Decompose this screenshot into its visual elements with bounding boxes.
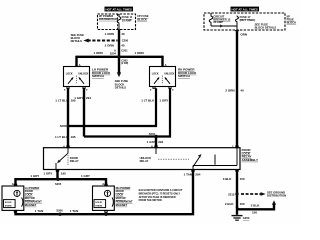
svg-text:1 GRY: 1 GRY	[43, 172, 52, 176]
svg-text:S205: S205	[55, 182, 62, 186]
wire tan motor bus to relay	[16, 170, 201, 215]
svg-text:HOT AT ALL TIMES: HOT AT ALL TIMES	[232, 8, 258, 12]
node S213	[228, 192, 239, 196]
svg-text:2 ORN: 2 ORN	[225, 88, 234, 92]
arrow down: see fuse block details (center)	[115, 57, 128, 90]
svg-text:S213: S213	[228, 193, 235, 197]
dashed arrow: see fuse block details (left)	[71, 33, 118, 43]
svg-text:1 LT BLU: 1 LT BLU	[55, 135, 68, 139]
svg-text:1 TAN: 1 TAN	[35, 209, 43, 213]
svg-text:BLOCK DETAILS: BLOCK DETAILS	[255, 26, 277, 30]
svg-text:LH POWER: LH POWER	[25, 186, 40, 190]
svg-text:UNLOCK: UNLOCK	[164, 73, 174, 76]
svg-text:40: 40	[240, 88, 244, 92]
svg-text:RELAY: RELAY	[70, 159, 79, 163]
svg-text:MOTOR: MOTOR	[116, 196, 126, 200]
wire to LH switch pin A	[77, 56, 81, 67]
fuse F11 symbol	[117, 14, 133, 30]
relay interior unlock contact	[140, 148, 237, 170]
svg-text:ASSEMBLY: ASSEMBLY	[242, 158, 258, 162]
wire relay ground BLK	[223, 170, 245, 215]
wire unlock bus	[68, 88, 156, 126]
label LH power door lock motor	[25, 186, 42, 207]
svg-text:1 TAN: 1 TAN	[70, 209, 78, 213]
svg-text:LOCK: LOCK	[66, 73, 73, 76]
svg-text:1 LT BLU: 1 LT BLU	[141, 99, 154, 103]
label RH power door lock motor	[116, 186, 133, 207]
svg-text:1 GRY: 1 GRY	[30, 174, 39, 178]
svg-text:1 LT BLU: 1 LT BLU	[55, 99, 68, 103]
node RH motor tan junction	[104, 213, 107, 216]
wire lock bus	[84, 88, 170, 136]
fuse F17 not used	[236, 15, 256, 26]
svg-text:1 GRY: 1 GRY	[147, 140, 156, 144]
label see fuse block details (inside box 2)	[255, 23, 277, 30]
fuse block 2 dashed box	[204, 13, 285, 30]
node S202	[60, 124, 70, 128]
svg-text:C200: C200	[122, 38, 129, 42]
motor M2 RH power door lock motor	[93, 184, 115, 212]
svg-text:1 GRY: 1 GRY	[81, 174, 90, 178]
svg-text:LOCK: LOCK	[116, 193, 124, 197]
wire LH lock GRY	[74, 88, 91, 136]
svg-text:FUSE 11: FUSE 11	[122, 15, 133, 19]
svg-text:2 BLK: 2 BLK	[251, 204, 261, 208]
node S203	[149, 132, 158, 138]
svg-text:STATE: STATE	[5, 204, 12, 207]
svg-text:(NOT USED): (NOT USED)	[240, 18, 256, 22]
svg-text:HOT AT ALL TIMES: HOT AT ALL TIMES	[106, 8, 132, 12]
fuse block 1 dashed box	[98, 14, 136, 30]
svg-text:40: 40	[121, 43, 125, 47]
hot-at-all-times label left	[105, 7, 134, 12]
wire LH unlock LT BLU	[55, 88, 76, 147]
svg-text:STATE: STATE	[95, 204, 102, 207]
svg-text:ORN: ORN	[240, 32, 247, 36]
svg-text:40: 40	[121, 32, 125, 36]
svg-text:RELAY: RELAY	[140, 159, 149, 163]
svg-text:BLOCK: BLOCK	[137, 17, 147, 21]
svg-text:DETAILS: DETAILS	[115, 86, 127, 90]
svg-text:1 TAN: 1 TAN	[184, 173, 192, 177]
svg-text:FROM THE MOTOR.: FROM THE MOTOR.	[139, 199, 163, 202]
connector exit fuse block 2	[235, 26, 247, 36]
svg-text:1 ORN: 1 ORN	[94, 51, 103, 55]
svg-text:294: 294	[195, 173, 200, 177]
svg-text:A: A	[12, 182, 14, 186]
svg-text:MAGNET: MAGNET	[116, 203, 128, 207]
svg-text:S206: S206	[56, 209, 63, 213]
svg-text:195: 195	[61, 172, 66, 176]
svg-text:A: A	[114, 48, 116, 52]
svg-text:G200: G200	[243, 216, 250, 220]
svg-text:PERMANENT: PERMANENT	[25, 199, 42, 203]
svg-text:SWITCH: SWITCH	[92, 74, 104, 78]
ground G200	[232, 216, 250, 221]
svg-text:10 AMP: 10 AMP	[122, 19, 132, 23]
wire relay to motor GRY drop	[43, 170, 66, 180]
wire trunk2 ORN to relay	[225, 32, 244, 148]
svg-text:DOOR: DOOR	[25, 189, 33, 193]
svg-text:PERMANENT: PERMANENT	[116, 199, 133, 203]
hot-at-all-times label right	[231, 7, 260, 12]
label door lock relay assembly	[242, 148, 258, 162]
svg-text:1 GRY: 1 GRY	[159, 99, 168, 103]
motor M1 LH power door lock motor	[2, 184, 24, 212]
switch S2 RH power door lock switch	[150, 67, 176, 92]
node S205	[55, 178, 62, 187]
svg-text:UNLOCK: UNLOCK	[78, 73, 88, 76]
svg-text:1 ORN: 1 ORN	[135, 51, 144, 55]
svg-text:SOLID: SOLID	[5, 202, 12, 204]
svg-text:150: 150	[240, 202, 245, 206]
svg-text:2 BLK: 2 BLK	[225, 202, 235, 206]
switch S1 LH power door lock switch	[64, 67, 90, 92]
svg-text:294: 294	[86, 96, 91, 100]
svg-text:(2 DR): (2 DR)	[121, 62, 128, 65]
svg-text:SOLID: SOLID	[95, 202, 102, 204]
wire trunk1 ORN	[105, 30, 129, 57]
svg-text:MOTOR: MOTOR	[25, 196, 35, 200]
svg-text:A: A	[102, 182, 104, 186]
label I/P fuse block 1	[137, 14, 148, 21]
node S204	[110, 48, 129, 65]
svg-text:1 ORN: 1 ORN	[105, 32, 114, 36]
wire to RH switch pin A	[163, 56, 167, 67]
node S206	[56, 209, 63, 216]
svg-text:195: 195	[71, 135, 76, 139]
svg-text:S203: S203	[149, 132, 156, 136]
svg-text:DISTRIBUTION: DISTRIBUTION	[99, 17, 118, 21]
wire gry motor bus	[16, 174, 107, 186]
wire lock feed to relay pin B	[147, 137, 164, 148]
svg-text:3 BLK: 3 BLK	[223, 177, 233, 181]
note each motor contains a circuit breaker	[139, 189, 183, 202]
circuit breaker CB12	[209, 13, 231, 26]
svg-text:DISTRIBUTION: DISTRIBUTION	[267, 194, 286, 198]
svg-text:MAGNET: MAGNET	[25, 203, 37, 207]
pin A RH motor	[102, 182, 104, 186]
svg-text:1 GRY: 1 GRY	[74, 96, 83, 100]
svg-text:DETAILS: DETAILS	[71, 39, 83, 43]
svg-text:LOCK: LOCK	[152, 73, 159, 76]
label RH power door lock switch	[178, 68, 197, 78]
svg-text:150: 150	[252, 210, 257, 214]
wire branch BLK off-page arrow	[237, 200, 276, 214]
relay interior lock contact	[56, 148, 79, 170]
svg-text:2 ORN: 2 ORN	[105, 43, 114, 47]
svg-text:S202: S202	[60, 124, 67, 128]
label LH power door lock switch	[92, 68, 111, 78]
svg-text:294: 294	[158, 140, 163, 144]
relay K1 door lock relay assembly box	[44, 145, 241, 171]
svg-text:SWITCH: SWITCH	[178, 74, 190, 78]
pin A LH motor	[12, 182, 14, 186]
svg-text:DOOR: DOOR	[116, 189, 124, 193]
label I/P fuse block 2	[287, 14, 297, 24]
dashed arrow: see ground distribution	[241, 190, 286, 197]
svg-text:150: 150	[240, 177, 245, 181]
svg-text:BLOCK: BLOCK	[287, 20, 297, 24]
svg-text:30 AMP: 30 AMP	[213, 20, 223, 24]
wire internal fuse block 2	[211, 25, 237, 28]
wire tee to switches	[77, 51, 163, 57]
svg-text:RH POWER: RH POWER	[116, 186, 131, 190]
svg-text:LOCK: LOCK	[25, 193, 33, 197]
svg-text:C201: C201	[121, 48, 128, 52]
